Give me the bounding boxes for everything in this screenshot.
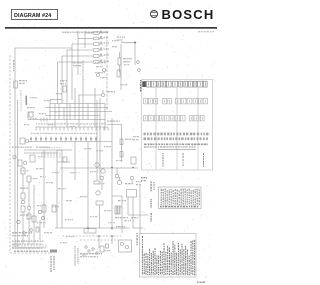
- comp K5a: [131, 157, 136, 164]
- svg-text:DIAGRAM #24: DIAGRAM #24: [14, 13, 51, 19]
- svg-text:BOSCH: BOSCH: [162, 7, 215, 22]
- Bosch logotype: [162, 7, 215, 22]
- rail small label: [26, 96, 27, 105]
- diode D2: [83, 254, 85, 256]
- text block mid: [73, 62, 106, 73]
- module M1: [119, 240, 132, 252]
- resistor R5: [21, 166, 25, 186]
- ladder bus horizontals: [28, 100, 112, 120]
- cluster under y167 right: [130, 176, 134, 183]
- junction dot A: [134, 42, 136, 44]
- relay contact ticks: [41, 118, 47, 122]
- resistor R22: [96, 201, 103, 228]
- fuse box F2: [30, 155, 35, 162]
- resistor R3: [63, 86, 67, 92]
- switch S7: [52, 205, 56, 212]
- long branch wire x44: [42, 150, 46, 228]
- diode D4: [23, 232, 26, 235]
- drop wires bottom: [99, 236, 112, 248]
- wiring code table: [159, 187, 202, 209]
- mid text labels: [52, 171, 98, 220]
- table column labels: [163, 153, 205, 167]
- resistor R6: [27, 176, 31, 196]
- rail label: [13, 60, 14, 72]
- branch y162: [57, 157, 70, 162]
- branch wire mid-right: [107, 125, 122, 163]
- bus wires y228: [55, 227, 130, 229]
- relay K6: [127, 190, 137, 198]
- transistor Q7: [92, 248, 94, 250]
- bend wire K6: [112, 196, 122, 208]
- top right labels: [112, 40, 131, 47]
- transistor Q8: [96, 252, 98, 254]
- branch wire left mid: [28, 112, 34, 120]
- branch y150: [57, 149, 72, 151]
- label 41c: [117, 37, 125, 41]
- list side label: [137, 233, 138, 246]
- connector strip X1: [36, 127, 108, 131]
- motor M2: [117, 177, 121, 185]
- long wire y167: [60, 167, 138, 169]
- mid-right label: [107, 121, 120, 122]
- rail wire 2: [17, 100, 19, 247]
- lower-left chain 1: [21, 186, 25, 222]
- transistor Q3: [96, 191, 100, 195]
- transistor Q5: [85, 246, 87, 248]
- resistor R16: [120, 152, 123, 158]
- relay labels: [115, 181, 142, 227]
- solenoid Y1: [115, 206, 120, 214]
- dashed branch y147: [40, 147, 62, 149]
- right boundary wire: [139, 185, 141, 233]
- switch bank S1-S6: [94, 31, 104, 64]
- pin row 1 head cell: [142, 81, 146, 87]
- left comp cluster 2: [13, 155, 27, 166]
- collector wire y95: [78, 90, 105, 97]
- feed staircase wires: [58, 31, 94, 127]
- pin row 2: [144, 99, 208, 104]
- resistor R33: [100, 246, 104, 252]
- vertical note: [51, 256, 55, 272]
- terminal mark right: [137, 61, 141, 72]
- code table footer row: [160, 206, 198, 208]
- header rule: [5, 27, 217, 29]
- diode D3: [30, 229, 33, 232]
- vertical note mid: [75, 246, 79, 266]
- lower-left chain 3: [32, 185, 36, 230]
- right trunk wire x107: [106, 31, 108, 110]
- transistor Q2: [94, 169, 105, 184]
- fuse hatch block: [42, 152, 60, 159]
- sensor B1: [14, 81, 21, 112]
- ladder bus verticals: [50, 60, 105, 130]
- component list box: [140, 234, 197, 278]
- header caption: [62, 31, 214, 33]
- branch wire x121: [120, 44, 122, 90]
- diode D1: [97, 69, 106, 77]
- pin row 4b: [144, 137, 208, 140]
- page number: [197, 282, 205, 283]
- transistor Q6: [88, 250, 90, 252]
- resistor R15: [120, 139, 123, 145]
- resistor R12: [118, 52, 121, 72]
- transistor Q1: [95, 163, 99, 167]
- left connector cluster: [20, 138, 29, 144]
- resistor R34: [106, 244, 109, 248]
- relay drop wires: [122, 197, 133, 233]
- pin row 3: [144, 116, 205, 121]
- table foot mark: [141, 177, 147, 181]
- pin row 4a: [144, 133, 209, 136]
- resistor R13: [117, 70, 120, 77]
- title block DIAGRAM #24: [12, 10, 58, 20]
- pin row 1: [147, 81, 208, 87]
- cluster under y167 mid: [115, 168, 119, 178]
- far trunk wire x135: [121, 43, 135, 66]
- table side labels: [151, 182, 155, 222]
- lower-left chain 2: [27, 196, 31, 225]
- cluster labels: [96, 66, 107, 78]
- connector pin table frame: [142, 80, 213, 171]
- connector strip X2: [28, 137, 112, 142]
- ground strip ticks: [12, 245, 46, 249]
- misc reference labels: [20, 97, 131, 243]
- table text row: [144, 144, 208, 148]
- cluster under y167 left: [100, 176, 104, 190]
- resistor R8: [36, 227, 39, 232]
- left boundary dashed wire: [10, 55, 52, 253]
- table corner mark: [140, 80, 141, 91]
- distribution wires y150: [24, 150, 62, 153]
- mid vertical wires: [57, 100, 112, 232]
- dashed bus y236: [62, 235, 122, 237]
- chain drop wires: [23, 220, 40, 244]
- dashed bus y240: [80, 239, 118, 241]
- interface box: [84, 229, 96, 234]
- supply corner wire node 30: [15, 48, 72, 247]
- Bosch emblem: [150, 10, 157, 17]
- bottom-left note rows: [12, 232, 57, 253]
- lower-left cluster circles: [17, 210, 45, 223]
- wire to list K6: [128, 215, 148, 228]
